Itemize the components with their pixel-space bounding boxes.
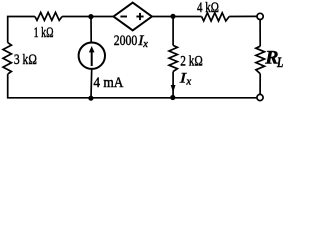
resistor 2k zigzag — [169, 45, 177, 71]
node junction bottom of 4mA branch — [88, 96, 93, 101]
wire from 1k to diamond — [62, 16, 113, 18]
minus sign inside diamond — [120, 16, 127, 18]
wire 2k branch top — [172, 17, 174, 46]
svg-text:4 mA: 4 mA — [93, 75, 123, 91]
wire RL branch bottom — [259, 74, 261, 95]
resistor 4k zigzag — [202, 13, 230, 21]
node junction top of 4mA branch — [88, 14, 93, 19]
node junction top of 2k branch — [170, 14, 175, 19]
svg-text:2000: 2000 — [114, 33, 138, 49]
wire below current source — [90, 69, 93, 98]
current source arrow up — [91, 51, 93, 67]
svg-text:3 kΩ: 3 kΩ — [14, 52, 37, 68]
resistor 1k zigzag — [35, 12, 62, 20]
wire 2k branch bottom — [172, 72, 174, 98]
resistor 3k zigzag — [3, 43, 11, 75]
svg-text:1 kΩ: 1 kΩ — [34, 25, 54, 41]
svg-text:x: x — [142, 38, 148, 50]
wire left-bottom corner segment — [8, 74, 257, 98]
terminal open circle bottom right — [257, 94, 263, 100]
wire from diamond to 4k — [152, 16, 202, 18]
svg-text:4 kΩ: 4 kΩ — [197, 0, 219, 16]
wire RL branch top — [259, 20, 261, 47]
dependent source diamond 2000 Ix — [114, 3, 152, 31]
wire top-left corner segment — [8, 17, 35, 43]
plus sign inside diamond — [136, 16, 143, 18]
wire 4mA branch top — [90, 17, 92, 43]
current source circle — [79, 43, 105, 69]
svg-text:x: x — [185, 76, 191, 88]
svg-text:2 kΩ: 2 kΩ — [180, 54, 203, 70]
resistor RL zigzag — [256, 46, 265, 74]
svg-text:L: L — [276, 55, 283, 71]
wire from 4k to top-right terminal — [229, 15, 257, 17]
current arrow Ix head — [171, 85, 176, 93]
terminal open circle top right — [257, 13, 263, 19]
node junction bottom of 2k branch — [170, 95, 175, 100]
